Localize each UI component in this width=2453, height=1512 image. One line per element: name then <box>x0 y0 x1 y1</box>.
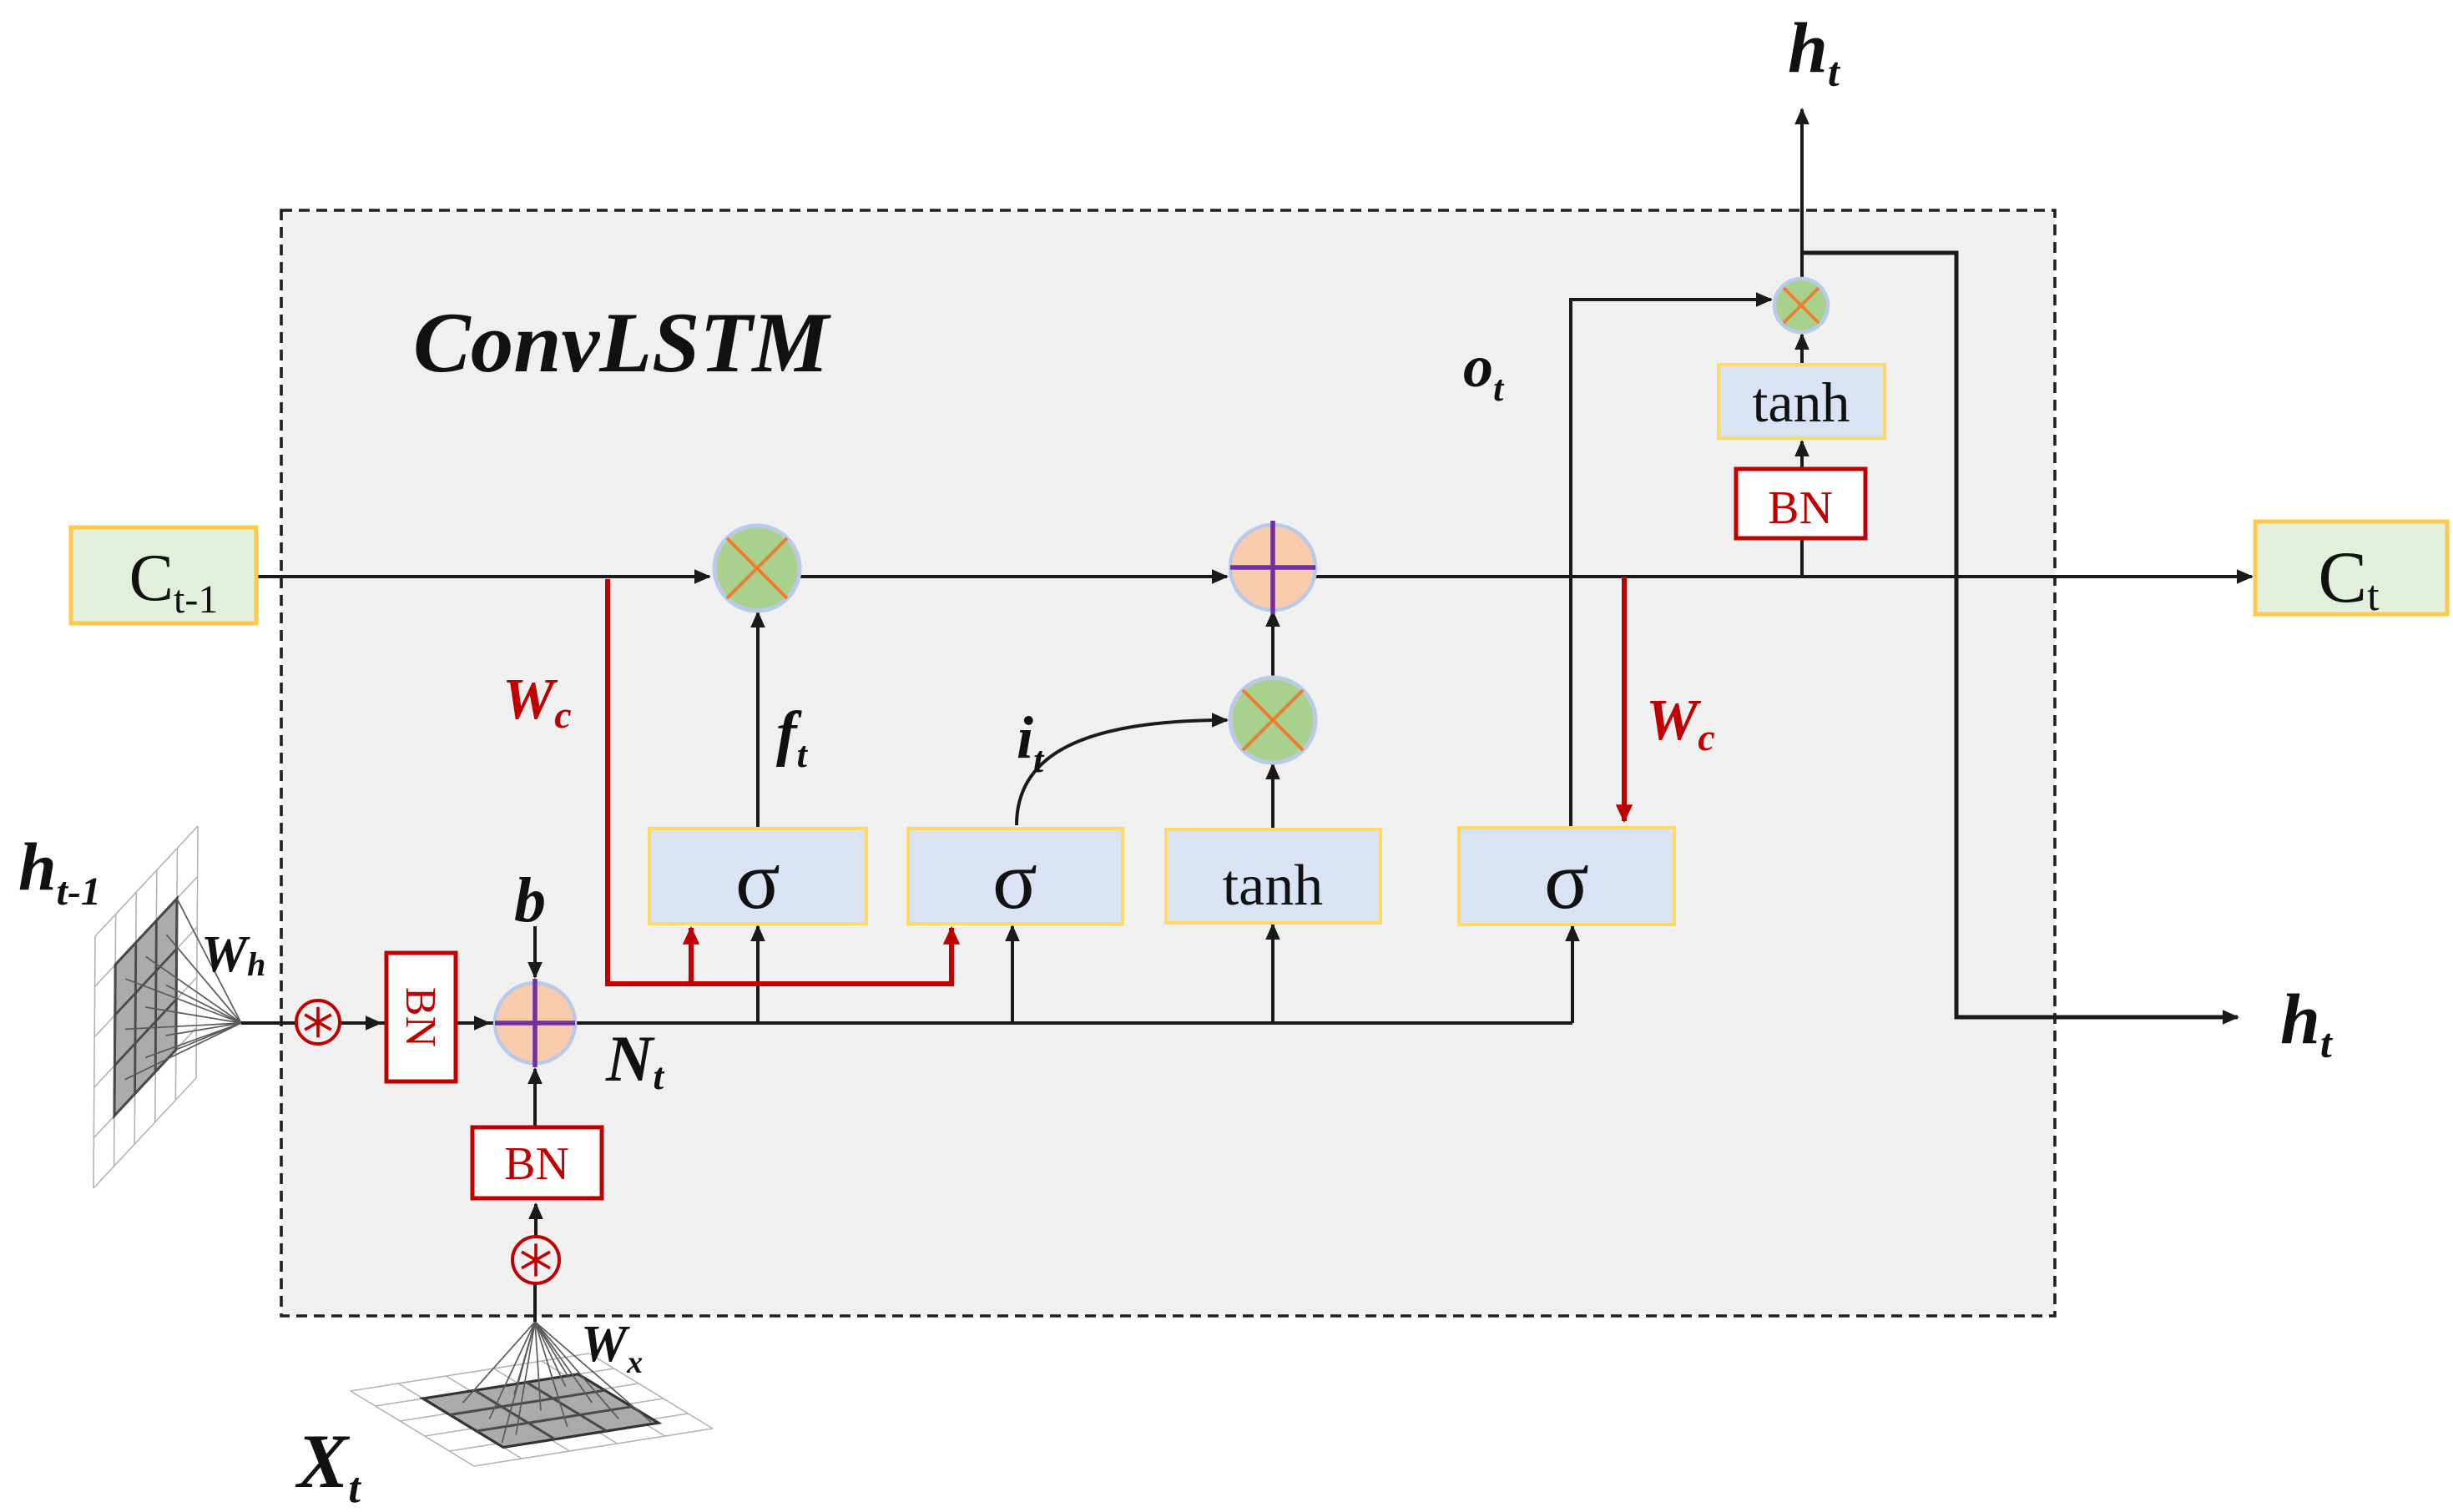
convolution operator on h path <box>296 1000 340 1044</box>
multiply node on C line (forget) <box>714 526 800 611</box>
convolution fan lines from X_t to kernel apex <box>463 1322 652 1443</box>
output multiply node small <box>1774 279 1828 332</box>
svg-text:ConvLSTM: ConvLSTM <box>413 295 831 391</box>
wire BN2 up into plus node <box>533 1069 537 1127</box>
input feature map h_{t-1} grid <box>93 826 198 1188</box>
svg-text:BN: BN <box>1768 482 1833 534</box>
box sigma3 output gate <box>1459 828 1674 925</box>
box BN rotated batch-norm on h path <box>386 953 456 1081</box>
plus node on C line <box>1230 525 1315 610</box>
wire cell-state C line from C_{t-1} into multiply node <box>256 575 709 578</box>
box C_t output cell state <box>2255 522 2447 614</box>
wire C line multiply to plus node <box>800 575 1227 578</box>
wire BN up into tanh <box>1800 441 1804 469</box>
wire o_t from sigma3 up and right into output multiply <box>1571 300 1771 828</box>
wire riser into sigma3 <box>1571 926 1574 1023</box>
svg-text:tanh: tanh <box>1223 854 1324 918</box>
wire riser into sigma2 <box>1011 926 1014 1023</box>
box sigma1 forget gate <box>649 829 866 924</box>
wire h_t feedback loop to right side output <box>1802 253 2238 1017</box>
svg-text:BN: BN <box>396 987 444 1047</box>
red W_c peephole path from C line down and right into sigma1/sigma2 <box>608 579 951 984</box>
box tanh candidate <box>1166 829 1380 923</box>
svg-text:σ: σ <box>1544 834 1589 926</box>
wire multiply2 up into plus node <box>1271 612 1274 678</box>
wire riser into sigma1 <box>756 926 760 1023</box>
svg-text:σ: σ <box>992 834 1037 926</box>
red W_c arrow from C line down into sigma3 <box>1622 577 1627 821</box>
box BN2 batch-norm on X path <box>472 1127 602 1198</box>
wire conv2 up into BN2 <box>534 1204 538 1237</box>
plus node N_t <box>495 983 575 1063</box>
box C_{t-1} input cell state <box>71 527 256 623</box>
ConvLSTM cell dashed boundary box <box>281 210 2055 1316</box>
wire bias b arrow into plus node <box>533 926 537 977</box>
convolution operator on X path <box>512 1237 559 1283</box>
svg-text:BN: BN <box>504 1138 569 1190</box>
wire C_t branch up into BN <box>1800 538 1804 577</box>
wire X_t apex up to conv2 <box>533 1283 537 1322</box>
svg-text:tanh: tanh <box>1752 370 1850 434</box>
wire C line plus node to C_t output <box>1315 575 2252 578</box>
convolution fan lines from h_{t-1} to kernel apex <box>125 899 242 1080</box>
wire arrow into rotated BN <box>341 1021 381 1025</box>
wire tanh up into multiply2 node <box>1271 764 1274 829</box>
box tanh output <box>1719 365 1885 438</box>
wire i_t curved arrow from sigma2 into multiply2 <box>1017 720 1227 825</box>
svg-text:b: b <box>514 865 546 935</box>
multiply node input x candidate <box>1230 678 1315 763</box>
red branch arrow into sigma1 <box>689 928 694 984</box>
box BN top batch-norm <box>1736 469 1865 538</box>
wire riser into tanh <box>1271 925 1274 1023</box>
input feature map X_t grid <box>351 1353 713 1466</box>
wire N_t main line <box>241 1021 1572 1025</box>
svg-text:σ: σ <box>735 834 780 926</box>
box sigma2 input gate <box>908 829 1123 924</box>
wire output multiply up to h_t <box>1800 109 1804 279</box>
wire tanh up into output multiply <box>1800 335 1804 365</box>
wire arrow into N_t plus node <box>457 1021 489 1025</box>
wire f_t from sigma1 up into multiply node <box>756 612 760 925</box>
